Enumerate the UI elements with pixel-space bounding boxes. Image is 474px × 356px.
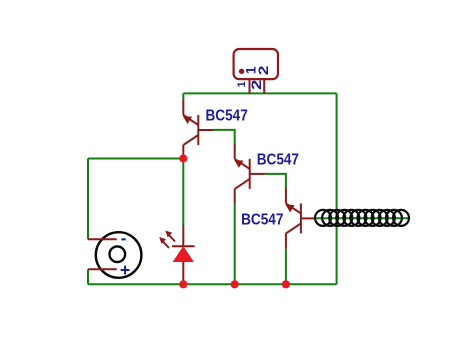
svg-text:BC547: BC547 — [257, 152, 299, 169]
transistor Q3 — [286, 188, 316, 248]
battery BT1 outer circle — [96, 232, 142, 278]
wire Q3 collector to bottom — [285, 248, 287, 284]
connector J1 dot — [239, 69, 244, 74]
transistor Q3 emitter arrowhead — [285, 204, 294, 212]
battery BT1 inner circle — [110, 246, 126, 262]
battery BT1 lead plus — [88, 268, 117, 270]
battery BT1 minus sign — [121, 238, 125, 240]
junction node C (Q2 collector bottom) — [231, 280, 239, 288]
wire left vertical upper — [87, 159, 89, 240]
LED D1 emission arrow 2 — [162, 241, 169, 248]
svg-text:BC547: BC547 — [206, 107, 248, 124]
transistor Q1 — [183, 100, 213, 160]
svg-text:2: 2 — [256, 65, 271, 75]
wire bottom horizontal — [88, 283, 337, 285]
LED D1 triangle — [174, 247, 194, 262]
wire top horizontal — [183, 92, 336, 94]
transistor Q2 — [235, 144, 265, 204]
wire left vertical lower — [87, 269, 89, 284]
connector J1 pin stub 1 — [249, 79, 251, 93]
wire Q1 base to Q2 emitter — [213, 130, 235, 145]
svg-text:1: 1 — [236, 81, 248, 87]
LED D1 cathode bar — [172, 245, 195, 247]
wire Q1 emitter to top — [182, 93, 184, 101]
transistor Q2 emitter arrowhead — [234, 160, 243, 168]
LED D1 emission arrow 1 — [168, 234, 175, 241]
wire through coil L1 — [315, 217, 409, 219]
inductor L1 coil — [315, 210, 409, 226]
wire Q2 base to Q3 emitter — [265, 174, 286, 189]
svg-text:2: 2 — [249, 80, 264, 90]
junction node D (Q3 collector bottom) — [282, 280, 290, 288]
wire node to LED vertical — [182, 159, 184, 226]
battery BT1 lead minus — [88, 238, 117, 240]
connector J1 pin stub 2 — [263, 79, 265, 93]
junction node A (Q1 collector) — [179, 154, 187, 162]
wire right vertical — [336, 93, 338, 284]
LED D1 lead bottom — [182, 262, 184, 285]
connector J1 box — [234, 49, 278, 79]
wire Q2 collector to bottom — [234, 204, 236, 284]
LED D1 lead top — [182, 225, 184, 246]
transistor Q1 emitter arrowhead — [183, 116, 192, 124]
battery BT1 plus sign — [121, 266, 130, 275]
junction node B (LED bottom) — [179, 280, 187, 288]
svg-text:BC547: BC547 — [241, 212, 283, 229]
wire node to LED left horizontal — [88, 158, 183, 160]
